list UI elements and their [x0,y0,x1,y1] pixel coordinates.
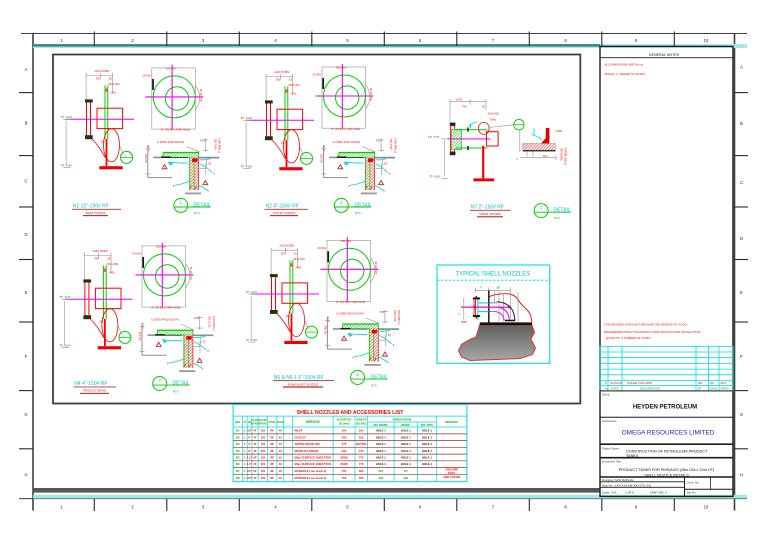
svg-text:Client:: Client: [602,393,610,397]
svg-text:INLET: INLET [295,429,303,433]
svg-text:750: 750 [462,105,467,109]
svg-text:25: 25 [482,105,486,109]
svg-text:HOLE 1: HOLE 1 [401,462,412,466]
svg-text:D: D [24,232,27,237]
svg-text:2 OF 8: 2 OF 8 [625,491,634,495]
svg-text:Job No :: Job No : [687,491,698,495]
svg-text:220: 220 [359,429,364,433]
svg-text:150: 150 [260,442,265,446]
svg-text:A: A [25,67,28,72]
svg-text:(B)–DEG: (B)–DEG [356,422,367,426]
svg-text:#F: #F [253,462,257,466]
svg-text:A5: A5 [404,469,408,473]
svg-text:10: 10 [704,505,709,510]
svg-text:PRODUCT TANKS FOR PMS/AGO (45m: PRODUCT TANKS FOR PMS/AGO (45m DIA x 20m… [619,468,715,472]
svg-text:OUTLET: OUTLET [295,435,306,439]
svg-text:Scale : N.A.: Scale : N.A. [602,491,617,495]
svg-text:150: 150 [260,435,265,439]
svg-text:REINF.: REINF. [401,423,410,427]
svg-text:INT. PIPE: INT. PIPE [421,423,433,427]
svg-text:HOLE 1: HOLE 1 [401,429,412,433]
svg-text:N5 & N6 1.5"-150# RF: N5 & N6 1.5"-150# RF [274,375,324,381]
svg-text:ANGLE: 1 = REFER TO NOTES: ANGLE: 1 = REFER TO NOTES [605,72,645,76]
svg-text:HOLE 1: HOLE 1 [401,442,412,446]
svg-text:SHELL NOZZLES AND ACCESSORIES: SHELL NOZZLES AND ACCESSORIES LIST [297,410,405,416]
svg-text:225: 225 [342,449,347,453]
svg-text:350 (MIN): 350 (MIN) [560,148,564,161]
svg-text:40: 40 [279,456,283,460]
svg-text:ISSUED FOR APPR: ISSUED FOR APPR [627,381,652,385]
svg-text:BY: BY [698,386,702,390]
svg-text:HOLE 1: HOLE 1 [422,435,433,439]
svg-text:N4: N4 [236,449,240,453]
svg-text:5ml: 5ml [543,154,548,158]
svg-text:HOLE 1: HOLE 1 [376,449,387,453]
svg-text:40: 40 [279,476,283,480]
svg-text:24": 24" [247,476,252,480]
svg-text:DATE: DATE [611,386,619,390]
svg-text:HOLE 1: HOLE 1 [422,442,433,446]
svg-text:APPD: APPD [721,386,729,390]
svg-text:H: H [740,473,743,478]
svg-text:HOLE 1: HOLE 1 [376,462,387,466]
svg-text:10": 10" [247,429,252,433]
svg-text:MANHOLE (see sheet 2): MANHOLE (see sheet 2) [295,469,327,473]
svg-text:1.5": 1.5" [247,456,253,460]
svg-text:24": 24" [247,469,252,473]
svg-text:775: 775 [342,442,347,446]
svg-text:A: A [458,312,460,316]
svg-text:10: 10 [704,38,709,43]
svg-text:PRODUCT DRAIN: PRODUCT DRAIN [83,389,106,393]
svg-text:Designer: McD MANUAL: Designer: McD MANUAL [602,478,634,482]
svg-text:E: E [25,290,28,295]
svg-text:SPM7-005- 0: SPM7-005- 0 [650,491,667,495]
svg-text:(B): (B) [497,286,501,290]
svg-text:ENGINEERING PRACTICE DURING CO: ENGINEERING PRACTICE DURING CONSTRUCTION… [604,330,701,334]
svg-text:ORIENT: ORIENT [356,418,366,422]
svg-text:FROM WELD: FROM WELD [564,148,568,165]
svg-text:REF: REF [235,420,241,424]
svg-text:N6: N6 [236,462,240,466]
svg-text:#F: #F [253,442,257,446]
svg-text:A: A [605,381,607,385]
svg-text:DETAIL: DETAIL [194,202,211,208]
svg-text:HOLE 1: HOLE 1 [401,456,412,460]
svg-text:775: 775 [359,456,364,460]
svg-text:N1 10"-150# RF: N1 10"-150# RF [73,204,109,210]
svg-text:N4 4"-150# RF: N4 4"-150# RF [74,381,107,387]
svg-text:Dwg No : XXX-XXX-ME-XXX-DTL-0: Dwg No : XXX-XXX-ME-XXX-DTL-001 [602,483,652,487]
svg-text:750: 750 [342,469,347,473]
svg-text:150: 150 [260,462,265,466]
svg-text:Contractors:: Contractors: [602,419,617,423]
svg-text:N2 4"-150# RF: N2 4"-150# RF [266,204,299,210]
svg-text:40: 40 [279,469,283,473]
svg-text:HOLE 1: HOLE 1 [422,449,433,453]
svg-text:220: 220 [378,469,383,473]
svg-text:225: 225 [359,435,364,439]
svg-text:RF: RF [270,456,274,460]
svg-text:INT. REINF.: INT. REINF. [373,423,388,427]
svg-text:F: F [25,354,28,359]
svg-text:4775: 4775 [433,135,440,139]
svg-text:300: 300 [359,476,364,480]
svg-text:14ML: 14ML [556,129,563,133]
svg-text:OUTLET NOZZLE: OUTLET NOZZLE [273,211,296,215]
svg-text:N8: N8 [236,476,240,480]
svg-text:B: B [25,121,28,126]
svg-text:A: A [480,286,482,290]
svg-text:INLET NOZZLE: INLET NOZZLE [86,211,106,215]
svg-text:TP: TP [429,174,433,178]
svg-text:REMARKS: REMARKS [445,420,458,424]
svg-text:220: 220 [403,476,408,480]
svg-text:SERVICE: SERVICE [306,420,320,424]
svg-text:TP: TP [428,135,432,139]
svg-text:THIS DRAWING DOES NOT RELEASE: THIS DRAWING DOES NOT RELEASE THE VENDOR… [604,323,687,327]
svg-text:HOLE 1: HOLE 1 [376,456,387,460]
svg-text:300: 300 [359,469,364,473]
svg-text:#F: #F [253,469,257,473]
svg-text:Contr. No :: Contr. No : [687,481,701,485]
svg-text:150: 150 [260,456,265,460]
svg-text:NTS: NTS [371,383,377,387]
svg-text:NTS: NTS [173,389,179,393]
svg-text:CONSTRUCTION OF PETROLEUM PROD: CONSTRUCTION OF PETROLEUM PRODUCT [626,449,708,453]
svg-text:220: 220 [378,476,383,480]
svg-text:RTNG: RTNG [269,421,276,424]
svg-text:QUANTITY: 2 NUMBER OF TANKS: QUANTITY: 2 NUMBER OF TANKS [606,336,651,340]
svg-text:450: 450 [342,435,347,439]
svg-text:C: C [24,179,27,184]
svg-text:APO: APO [721,381,728,385]
svg-text:E: E [740,290,743,295]
svg-text:NTS: NTS [554,216,560,220]
svg-text:HOLE 1: HOLE 1 [422,462,433,466]
svg-text:150: 150 [260,429,265,433]
svg-text:150: 150 [260,476,265,480]
svg-text:RF: RF [270,449,274,453]
svg-text:01/04/19: 01/04/19 [611,381,622,385]
svg-text:AND COVER: AND COVER [443,475,460,479]
svg-text:#F: #F [253,476,257,480]
svg-text:F: F [740,354,743,359]
svg-text:N7 2"-150# RF: N7 2"-150# RF [471,205,504,211]
svg-text:D: D [740,236,743,241]
svg-text:40: 40 [279,462,283,466]
svg-text:24000: 24000 [340,462,348,466]
svg-text:SPARE (WATER): SPARE (WATER) [479,212,501,216]
svg-text:RF: RF [270,462,274,466]
svg-text:40: 40 [279,435,283,439]
svg-text:40: 40 [279,429,283,433]
svg-text:RF: RF [270,476,274,480]
svg-text:RF: RF [270,442,274,446]
svg-text:C: C [740,180,743,185]
svg-text:N: N [244,420,246,424]
svg-text:No: No [605,386,609,390]
svg-text:MANHOLE (see sheet 3): MANHOLE (see sheet 3) [295,476,327,480]
svg-text:775: 775 [359,462,364,466]
svg-text:150: 150 [260,449,265,453]
svg-text:HEYDEN PETROLEUM: HEYDEN PETROLEUM [633,405,697,411]
svg-text:H: H [24,473,27,478]
svg-text:HOLE 1: HOLE 1 [401,449,412,453]
svg-text:DETAIL: DETAIL [554,208,571,214]
svg-text:OMEGA RESOURCES LIMITED: OMEGA RESOURCES LIMITED [622,430,715,437]
svg-text:1475: 1475 [456,98,463,102]
svg-text:A: A [740,65,743,70]
svg-text:N3: N3 [236,442,240,446]
svg-text:750: 750 [342,476,347,480]
svg-text:Main SURFACE INJECTION: Main SURFACE INJECTION [295,462,331,466]
svg-text:#F: #F [253,449,257,453]
svg-text:GENERAL NOTES: GENERAL NOTES [649,53,680,57]
svg-text:ORIENTATION: ORIENTATION [392,418,411,422]
svg-text:HOLE 1: HOLE 1 [376,442,387,446]
svg-text:HOLE 1: HOLE 1 [422,429,433,433]
svg-text:N2: N2 [236,435,240,439]
svg-text:RTNG: RTNG [259,422,267,426]
svg-text:RF: RF [270,429,274,433]
svg-text:1.5": 1.5" [247,462,253,466]
svg-text:WATER DRAW-OFF: WATER DRAW-OFF [295,442,321,446]
svg-text:NTS: NTS [194,211,200,215]
svg-text:MD: MD [698,381,702,385]
svg-text:RTNG: RTNG [251,422,259,426]
svg-text:Document Title:: Document Title: [602,460,622,464]
svg-text:25x4 400: 25x4 400 [488,112,500,116]
svg-text:Project Name:: Project Name: [602,446,620,450]
svg-text:(A) (mm): (A) (mm) [339,422,350,426]
svg-text:40: 40 [279,442,283,446]
svg-text:DESCRIPTION: DESCRIPTION [640,386,660,390]
svg-text:4160: 4160 [434,174,441,178]
svg-text:RF: RF [270,469,274,473]
svg-text:FOAM INJECT NOZZLE: FOAM INJECT NOZZLE [288,382,319,386]
svg-text:DETAIL: DETAIL [173,380,190,386]
svg-text:#F: #F [253,429,257,433]
svg-text:#F: #F [253,435,257,439]
svg-text:40: 40 [279,449,283,453]
svg-text:N1: N1 [236,429,240,433]
svg-text:HOLE 1: HOLE 1 [422,456,433,460]
svg-text:G: G [740,412,743,417]
svg-text:SCHD: SCHD [277,421,284,424]
svg-text:HOLE 1: HOLE 1 [401,435,412,439]
svg-text:PRODUCT DRAIN: PRODUCT DRAIN [295,449,318,453]
svg-text:ELEVATION: ELEVATION [337,418,352,422]
svg-text:B: B [740,121,743,126]
svg-text:DETAIL: DETAIL [355,202,372,208]
svg-text:G: G [24,412,27,417]
svg-text:14NL: 14NL [490,118,497,122]
svg-text:#F: #F [253,456,257,460]
svg-text:HOLE 1: HOLE 1 [376,429,387,433]
svg-text:770: 770 [359,449,364,453]
svg-text:NTS: NTS [355,211,361,215]
svg-text:ALL DIMENSIONS ARE IN mm: ALL DIMENSIONS ARE IN mm [605,63,644,67]
svg-text:D4/7500: D4/7500 [356,442,367,446]
svg-text:24550: 24550 [340,456,348,460]
svg-text:N7: N7 [236,469,240,473]
svg-text:HOLE 1: HOLE 1 [376,435,387,439]
svg-text:TYPICAL SHELL NOZZLES: TYPICAL SHELL NOZZLES [456,272,531,278]
svg-text:N5: N5 [236,456,240,460]
svg-text:300: 300 [342,429,347,433]
svg-text:Main SURFACE INJECTION: Main SURFACE INJECTION [295,456,331,460]
svg-text:CHKD: CHKD [709,386,717,390]
svg-text:150: 150 [260,469,265,473]
svg-text:RF: RF [270,435,274,439]
svg-text:DETAIL: DETAIL [371,374,388,380]
